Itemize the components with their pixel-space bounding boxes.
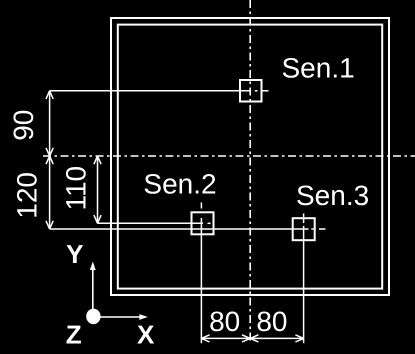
svg-text:Sen.3: Sen.3 [296,180,369,211]
horizontal centerline [43,155,415,157]
svg-text:X: X [137,319,155,349]
leader line to Sen.2 (110 dim) [98,222,204,224]
X axis line [93,316,140,318]
arrow up at top of 90 dim [46,91,53,99]
extension line below Sen.2 [200,218,202,343]
sensor Sen.2 vertical center dash above [200,203,202,209]
Y axis line [92,269,94,316]
arrow pair at centerline on 80/80 dim [242,335,258,342]
leader line to Sen.1 (90 dim) [50,90,250,92]
svg-text:80: 80 [256,306,287,337]
svg-text:110: 110 [61,166,92,211]
svg-text:120: 120 [12,172,43,219]
svg-text:80: 80 [209,306,240,337]
sensor square Sen.2 [192,212,214,234]
arrow up at top of 110 dim [94,156,101,164]
svg-text:90: 90 [8,110,39,141]
svg-text:Sen.2: Sen.2 [143,169,216,200]
arrow right at right of 80 dim [295,335,303,342]
svg-text:Sen.1: Sen.1 [282,52,355,83]
sensor Sen.3 horizontal center tick [319,228,326,230]
svg-text:Y: Y [66,239,83,269]
arrow down at bottom of 120 dim [46,221,53,229]
arrow pair at centerline on 90/120 dim [46,148,53,164]
dimension line 110 vertical [97,156,99,223]
sensor square Sen.3 [293,218,315,240]
X axis arrowhead [139,314,148,320]
arrow down at bottom of 110 dim [94,215,101,223]
Y axis arrowhead [90,262,96,271]
arrow left at left of 80 dim [201,335,209,342]
dimension line 80/80 horizontal [201,337,303,339]
sensor Sen.1 horizontal center tick [263,90,269,92]
extension line below Sen.3 [303,219,305,223]
axis origin circle [86,309,100,325]
vertical centerline [249,0,251,342]
sensor Sen.3 vertical center dash above [303,214,305,218]
dimension line 90/120 vertical [49,91,51,229]
plate inner rectangle [118,25,382,289]
leader line to Sen.3 (120 dim) [50,228,309,230]
sensor square Sen.1 [240,80,262,102]
plate outer rectangle [111,18,389,295]
svg-text:Z: Z [66,319,82,349]
